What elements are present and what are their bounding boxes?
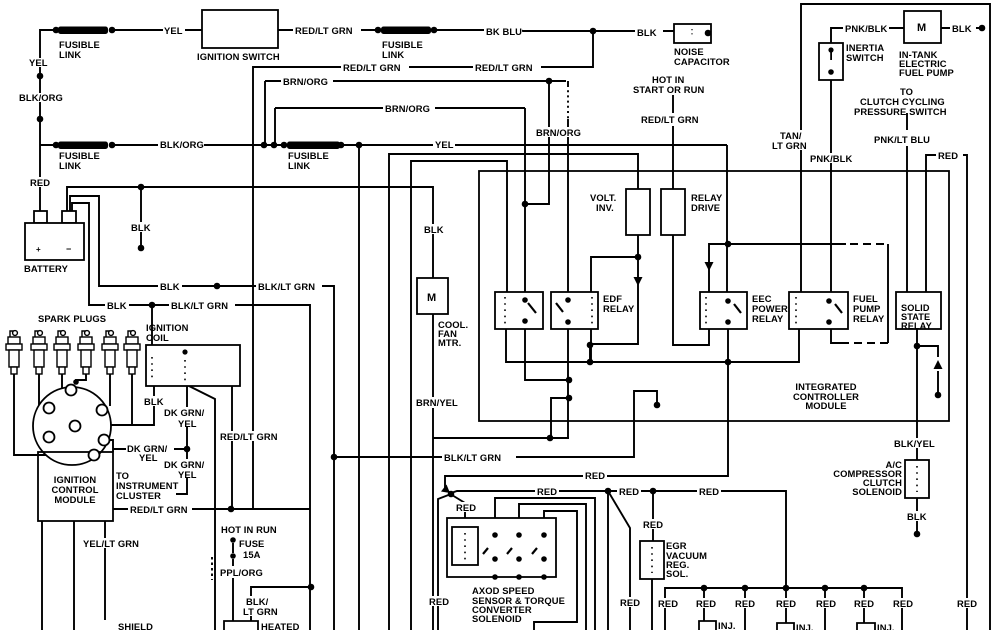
label TAN/LT GRN bbox=[770, 130, 808, 150]
svg-text:YEL: YEL bbox=[178, 469, 197, 480]
fusible link 4 bar bbox=[287, 142, 340, 150]
label YEL/LT GRN bbox=[81, 538, 143, 548]
label RED inj 786 bbox=[774, 598, 798, 608]
wire: loop right side down bbox=[887, 244, 889, 343]
node: VOLT INV output bbox=[635, 254, 642, 261]
label BLK A/C bbox=[905, 511, 929, 521]
label BK BLU bbox=[484, 26, 522, 36]
wire: injector drop 825 bbox=[824, 588, 826, 630]
label RED diag 630 bbox=[618, 597, 642, 607]
wire: BRN/ORG branch down at x275 to YEL row bbox=[274, 108, 276, 145]
ignition switch IGNITION SWITCH bbox=[202, 10, 278, 48]
wire: RED distribution row y491 bbox=[451, 491, 786, 588]
svg-text:LT GRN: LT GRN bbox=[772, 140, 807, 151]
node: EDF relay 2 contacts bbox=[565, 297, 571, 303]
label RED/LT GRN top bbox=[293, 25, 361, 35]
label BLK/LT GRN row457 bbox=[442, 451, 516, 462]
svg-text:RED: RED bbox=[429, 596, 449, 607]
svg-text:RED: RED bbox=[643, 519, 663, 530]
wire: ignition coil BLK bottom pin to distributor center bbox=[80, 386, 154, 425]
svg-text:FUSE: FUSE bbox=[239, 538, 264, 549]
distributor tower lower-left bbox=[44, 432, 55, 443]
svg-text:15A: 15A bbox=[243, 549, 261, 560]
svg-text:RED: RED bbox=[699, 486, 719, 497]
svg-text:M: M bbox=[427, 292, 436, 304]
wire: spark plug 1 lead bbox=[14, 374, 47, 455]
inertia switch bbox=[819, 43, 843, 80]
svg-text:RED: RED bbox=[537, 486, 557, 497]
svg-text:YEL: YEL bbox=[139, 452, 158, 463]
EEC power relay K2 bbox=[700, 292, 747, 329]
distributor tower top bbox=[66, 385, 77, 396]
svg-text:BLK/ORG: BLK/ORG bbox=[19, 92, 63, 103]
label PNK/BLK top bbox=[843, 23, 889, 33]
wire: BRN/ORG branch x549 down to x525 join bbox=[525, 81, 549, 204]
wire: top row from fusible link to ignition switch bbox=[112, 29, 202, 31]
node: solid state relay output bbox=[914, 343, 921, 350]
svg-text:BLK: BLK bbox=[107, 300, 127, 311]
fusible link 1 bar bbox=[58, 27, 108, 35]
svg-text:MODULE: MODULE bbox=[54, 494, 95, 505]
node: BLK row y305 coil junction bbox=[149, 302, 156, 309]
svg-text:BLK: BLK bbox=[144, 396, 164, 407]
label RED/LT GRN coil bbox=[218, 431, 282, 441]
label BRN/ORG dashed bbox=[534, 127, 586, 137]
svg-text:RED/LT GRN: RED/LT GRN bbox=[641, 114, 699, 125]
label BLK fuel pump bbox=[950, 23, 976, 33]
distributor tower upper-right bbox=[97, 405, 108, 416]
label YEL top bbox=[163, 25, 185, 35]
node: YEL marker upper bbox=[37, 73, 44, 80]
node: x569 junctions bbox=[566, 377, 573, 384]
wire: BRN/ORG branch down at x265 to YEL row bbox=[264, 81, 266, 145]
svg-text:RED: RED bbox=[776, 598, 796, 609]
SPARK PLUGS bbox=[6, 331, 140, 374]
svg-text:BATTERY: BATTERY bbox=[24, 263, 69, 274]
dotted column AXOD connector bbox=[464, 533, 466, 560]
battery body bbox=[25, 223, 84, 260]
svg-text:IGNITION SWITCH: IGNITION SWITCH bbox=[197, 51, 280, 62]
ignition control module box bbox=[38, 452, 113, 521]
spark plug 5 bbox=[102, 331, 118, 374]
fusible link 3 bar bbox=[381, 27, 431, 35]
node: BRN/ORG branch x549 bbox=[546, 78, 553, 85]
wire: EDF relay 2 lower pin path bbox=[567, 329, 569, 439]
node: injector bus junctions bbox=[701, 585, 708, 592]
wire: inertia switch feed from top bbox=[831, 28, 904, 43]
wire: EDF relay 1 pin x525 to x569 join bbox=[525, 329, 569, 380]
wire: BLK/LT GRN branch to heated windshield bbox=[251, 587, 311, 621]
svg-text:INJ.: INJ. bbox=[718, 620, 736, 630]
wire: spark plug 2 lead bbox=[39, 374, 44, 408]
svg-text:MODULE: MODULE bbox=[805, 400, 846, 411]
svg-text:BLK/YEL: BLK/YEL bbox=[894, 438, 935, 449]
wire: ignition coil top BLK pin bbox=[151, 305, 153, 345]
label RED/LT GRN module bbox=[128, 504, 192, 514]
wire: fuse PPL/ORG drop to heated windshield bbox=[232, 543, 234, 621]
label PNK/LT BLU bbox=[872, 134, 936, 144]
label RED row491 b bbox=[617, 486, 641, 496]
svg-text:FUEL PUMP: FUEL PUMP bbox=[899, 67, 954, 78]
svg-text:RED/LT GRN: RED/LT GRN bbox=[475, 62, 533, 73]
svg-text:HEATED: HEATED bbox=[261, 621, 300, 630]
wire: EDF relay 1 lower pin to ground bus to fuel pump relay bbox=[506, 329, 799, 362]
svg-text:LINK: LINK bbox=[288, 160, 310, 171]
label RED row491 a bbox=[535, 486, 559, 496]
label RED inj 902 bbox=[891, 598, 915, 608]
svg-text:BLK: BLK bbox=[907, 511, 927, 522]
node: BK BLU junction bbox=[590, 28, 597, 35]
label RED/LT GRN row2 a bbox=[341, 62, 409, 72]
node: inertia switch contacts bbox=[828, 47, 833, 52]
RELAY CONTACT MARKS + DOTTED COLUMNS bbox=[152, 29, 917, 573]
svg-text:RED/LT GRN: RED/LT GRN bbox=[130, 504, 188, 515]
wire: BRN/YEL cooling fan motor to EDF relay bbox=[432, 314, 434, 630]
distributor cap circle bbox=[33, 387, 111, 465]
label YEL row145 bbox=[433, 139, 455, 149]
svg-text:RED: RED bbox=[658, 598, 678, 609]
cooling fan motor M bbox=[417, 278, 448, 314]
svg-text:BRN/ORG: BRN/ORG bbox=[283, 76, 328, 87]
svg-text:DRIVE: DRIVE bbox=[691, 202, 720, 213]
wire: module pin 2 bbox=[73, 521, 75, 630]
wire: battery negative riser 2 BLK row y286 bbox=[70, 196, 334, 630]
svg-text:BRN/ORG: BRN/ORG bbox=[385, 103, 430, 114]
svg-text:LINK: LINK bbox=[59, 160, 81, 171]
svg-text:PRESSURE SWITCH: PRESSURE SWITCH bbox=[854, 106, 947, 117]
EDF relay K1 half 1 bbox=[495, 292, 543, 329]
wire: ignition switch to fusible link 3 bbox=[278, 29, 378, 31]
noise capacitor bbox=[674, 24, 711, 43]
svg-text:INJ.: INJ. bbox=[877, 622, 895, 630]
wire: BRN/ORG x525 drop to EDF relay 1 bbox=[524, 108, 526, 292]
distributor tower upper-left bbox=[44, 403, 55, 414]
svg-text:BLK: BLK bbox=[160, 281, 180, 292]
wire: BRN/ORG upper row bbox=[265, 80, 566, 82]
node: BLK row y286 junction bbox=[214, 283, 221, 290]
arrow up to solid state relay bbox=[934, 360, 943, 369]
spark plug 3 bbox=[54, 331, 70, 374]
svg-text:SWITCH: SWITCH bbox=[846, 52, 884, 63]
label RED battery bbox=[28, 177, 52, 187]
node: DK GRN/YEL junction bbox=[184, 446, 191, 453]
label DK GRN/YEL 3 bbox=[162, 459, 210, 478]
svg-text:BRN/YEL: BRN/YEL bbox=[416, 397, 458, 408]
label BLK coil pin bbox=[142, 396, 166, 406]
wire: x388 long vertical and feed to VOLT INV bbox=[389, 154, 638, 630]
wire: AXOD bracket 1 bbox=[495, 498, 595, 630]
fuel pump relay K3 bbox=[789, 292, 848, 329]
wire: BRN/ORG dashed drop to EDF relay coil bbox=[567, 81, 569, 85]
node: RED row junctions bbox=[605, 488, 612, 495]
dotted column A/C solenoid bbox=[916, 466, 918, 492]
svg-text:RED: RED bbox=[620, 597, 640, 608]
svg-text:BRN/ORG: BRN/ORG bbox=[536, 127, 581, 138]
svg-text:RELAY: RELAY bbox=[603, 303, 635, 314]
integrated controller module box bbox=[479, 171, 949, 421]
wire: injector drop 704 bbox=[703, 588, 705, 621]
svg-text:BLK/LT GRN: BLK/LT GRN bbox=[171, 300, 228, 311]
label RED/LT GRN row2 b bbox=[473, 62, 541, 72]
dotted column EDF2 bbox=[591, 297, 593, 324]
node: fuse terminals bbox=[230, 537, 236, 543]
wire: RED bracket right branch long vertical bbox=[963, 155, 967, 630]
battery terminal + bbox=[34, 211, 47, 223]
svg-text:BK BLU: BK BLU bbox=[486, 26, 522, 37]
svg-text:COIL: COIL bbox=[146, 332, 169, 343]
heated windshield box top bbox=[224, 621, 258, 630]
svg-text:SOLENOID: SOLENOID bbox=[472, 613, 522, 624]
svg-text:BLK/LT GRN: BLK/LT GRN bbox=[444, 452, 501, 463]
svg-text:PPL/ORG: PPL/ORG bbox=[220, 567, 263, 578]
distributor tower bottom bbox=[89, 450, 100, 461]
wire: AXOD bracket 3 bbox=[534, 511, 577, 630]
wire: shield dashes bbox=[211, 557, 213, 580]
node: dangling stub end x657 bbox=[654, 402, 661, 409]
injector INJ3 box bbox=[857, 623, 875, 630]
dotted column EGR bbox=[651, 547, 653, 573]
svg-text:YEL: YEL bbox=[435, 139, 454, 150]
wire: integrated controller module right feed TAN/LT GRN bbox=[801, 4, 990, 630]
node: arrow stub end bbox=[935, 392, 942, 399]
svg-text:YEL/LT GRN: YEL/LT GRN bbox=[83, 538, 139, 549]
injector INJ1 box bbox=[699, 621, 716, 630]
ARROWS bbox=[441, 262, 943, 493]
node: EDF output junctions bbox=[587, 342, 594, 349]
wire: BLK/ORG + YEL main row y145 bbox=[40, 144, 727, 146]
injector INJ2 box bbox=[777, 623, 794, 630]
svg-text:YEL: YEL bbox=[164, 25, 183, 36]
wire: YEL drop to EEC power relay bbox=[726, 145, 728, 292]
contact mark AXOD 1 bbox=[483, 548, 488, 554]
spark plug 6 bbox=[124, 331, 140, 374]
node: RED feed junction bbox=[448, 491, 455, 498]
label BLK/ORG row145 bbox=[158, 139, 204, 149]
node: noise capacitor terminal bbox=[705, 30, 712, 37]
svg-text:RED: RED bbox=[585, 470, 605, 481]
label DK GRN/YEL 2 bbox=[126, 443, 174, 460]
contact mark EDF2 bbox=[556, 303, 563, 312]
svg-text:PNK/BLK: PNK/BLK bbox=[810, 153, 852, 164]
svg-text:BLK/LT GRN: BLK/LT GRN bbox=[258, 281, 315, 292]
label DK GRN/YEL 1 bbox=[162, 407, 210, 427]
label BLK/LT GRN row286 bbox=[256, 281, 322, 291]
svg-text:SHIELD: SHIELD bbox=[118, 621, 153, 630]
wire: DK GRN/YEL distributor link bbox=[113, 448, 187, 450]
EGR vacuum regulator solenoid box bbox=[640, 541, 664, 579]
arrow into EDF relay bbox=[634, 277, 643, 286]
wire: BLK/LT GRN row y457 bbox=[334, 391, 657, 457]
wire: EGR output to bottom bbox=[651, 579, 653, 630]
svg-text:DK GRN/: DK GRN/ bbox=[164, 407, 205, 418]
svg-text:SOL.: SOL. bbox=[666, 568, 688, 579]
svg-text:RELAY: RELAY bbox=[901, 321, 932, 331]
in-tank electric fuel pump M bbox=[904, 11, 941, 43]
svg-text:RELAY: RELAY bbox=[752, 313, 784, 324]
wire: RELAY DRIVE output to EEC power relay bbox=[673, 235, 709, 345]
solid state relay K4 bbox=[896, 292, 941, 329]
wire: RED diagonal branch bbox=[608, 491, 630, 630]
label RED right 967 bbox=[955, 598, 979, 608]
wire: solid state relay arrow branch bbox=[917, 346, 938, 393]
svg-text:RED: RED bbox=[957, 598, 977, 609]
node: distributor top junction bbox=[73, 379, 79, 385]
wire: EEC relay coil loop from YEL node bbox=[709, 244, 728, 292]
svg-text:RED: RED bbox=[735, 598, 755, 609]
wire: T jog x551 bbox=[551, 398, 569, 438]
label RED drop 438 bbox=[427, 596, 451, 606]
dotted column EEC bbox=[705, 297, 707, 324]
wire: RED drop left of AXOD bbox=[438, 494, 451, 630]
node: EEC loop junction y244 bbox=[725, 241, 732, 248]
wire: fuel pump relay loop dashed part bbox=[850, 243, 888, 245]
node: fuel pump relay contacts bbox=[826, 298, 832, 304]
label BLK/LT GRN row305 bbox=[169, 300, 235, 310]
svg-text:PNK/BLK: PNK/BLK bbox=[845, 23, 887, 34]
node: A/C solenoid ground end bbox=[914, 531, 921, 538]
node: EEC relay contacts bbox=[725, 298, 731, 304]
svg-text:RED: RED bbox=[938, 150, 958, 161]
svg-text:BLK/ORG: BLK/ORG bbox=[160, 139, 204, 150]
wire: BLK ground stub at x141 bbox=[140, 187, 142, 246]
svg-text:BLK: BLK bbox=[131, 222, 151, 233]
label BLK noise bbox=[635, 27, 663, 37]
label RED row491 c bbox=[697, 486, 721, 496]
wire: A/C solenoid BLK ground bbox=[916, 498, 918, 532]
spark plug 4 bbox=[78, 331, 94, 374]
label YEL left bbox=[28, 58, 49, 67]
label RED inj 745 bbox=[733, 598, 757, 608]
contact mark AXOD 2 bbox=[507, 548, 512, 554]
svg-text:RED/LT GRN: RED/LT GRN bbox=[343, 62, 401, 73]
svg-text:BLK: BLK bbox=[424, 224, 444, 235]
node: battery feed junction x141 bbox=[138, 184, 145, 191]
EDF relay K1 half 2 bbox=[551, 292, 598, 329]
svg-text:LINK: LINK bbox=[59, 49, 81, 60]
spark plug 2 bbox=[31, 331, 47, 374]
wire: injector drop 745 bbox=[744, 588, 746, 630]
label RED top row bbox=[583, 470, 607, 480]
svg-text:RED: RED bbox=[619, 486, 639, 497]
label BRN/ORG row 108 bbox=[383, 103, 435, 113]
svg-text:CAPACITOR: CAPACITOR bbox=[674, 56, 730, 67]
node: ignition coil terminal bbox=[182, 349, 187, 354]
svg-text:MTR.: MTR. bbox=[438, 337, 461, 348]
spark plug 1 bbox=[6, 331, 22, 374]
battery terminal - bbox=[62, 211, 76, 223]
arrow into RED junction bbox=[441, 485, 450, 494]
wire: spark plug 4 lead bbox=[76, 374, 86, 383]
label RED EGR bbox=[641, 519, 665, 529]
wire: spark plug 5 lead bbox=[109, 374, 111, 406]
contact mark EEC bbox=[734, 304, 741, 313]
svg-text:RED: RED bbox=[854, 598, 874, 609]
wire: fuel pump M to BLK terminal bbox=[941, 27, 979, 29]
wire: fuel pump relay loop solid part bbox=[728, 243, 846, 245]
label BLK/YEL bbox=[892, 438, 936, 448]
fusible link 2 bar bbox=[58, 142, 108, 150]
node: fusible link 2 ends bbox=[53, 142, 60, 149]
label RED/LT GRN relay drive bbox=[639, 114, 707, 124]
svg-text:RED: RED bbox=[816, 598, 836, 609]
svg-text:M: M bbox=[917, 22, 926, 34]
node: AXOD connector pins bbox=[492, 532, 498, 538]
label BRN/ORG row 81 bbox=[281, 76, 333, 86]
svg-text:RED: RED bbox=[30, 177, 50, 188]
volt inv box U1 bbox=[626, 189, 650, 235]
node: YEL row junctions bbox=[261, 142, 268, 149]
node: bus junction x728 bbox=[725, 359, 732, 366]
wire: coil diagonal pin to x215 vertical bbox=[189, 386, 215, 630]
svg-text:START OR RUN: START OR RUN bbox=[633, 84, 704, 95]
wire: RED/LT GRN from ignition control module bbox=[113, 508, 310, 510]
label PPL/ORG bbox=[218, 567, 266, 577]
arrow into EEC relay bbox=[705, 262, 714, 271]
wire: VOLT INV arrow branch to EDF node bbox=[590, 257, 638, 362]
wire: EDF relay 2 pin x591 to bus bbox=[590, 329, 592, 362]
label RED inj 665 bbox=[656, 598, 680, 608]
wire: RED bracket left branch to solid state relay bbox=[926, 155, 936, 292]
dotted column ignition coil 2 bbox=[184, 360, 186, 381]
wire: distributor LR tower to module bbox=[108, 440, 113, 452]
contact mark EDF1 bbox=[528, 303, 536, 313]
node: fuel pump BLK end bbox=[979, 25, 986, 32]
wire: module pin YEL/LT GRN bbox=[41, 521, 43, 630]
node: BLK/ORG marker lower bbox=[37, 116, 44, 123]
node: fusible link 3 ends bbox=[375, 27, 382, 34]
svg-text:RED/LT GRN: RED/LT GRN bbox=[295, 25, 353, 36]
wire: battery negative riser 1 to cooling fan motor row bbox=[67, 187, 433, 278]
svg-text:−: − bbox=[66, 244, 71, 254]
svg-text:BLK: BLK bbox=[637, 27, 657, 38]
ignition coil box bbox=[146, 345, 240, 386]
wire: BRN/ORG lower row bbox=[275, 107, 525, 109]
label RED inj 864 bbox=[852, 598, 876, 608]
wire: clutch cycling pressure switch PNK/LT BLU bbox=[906, 113, 908, 292]
svg-text:RED/LT GRN: RED/LT GRN bbox=[220, 431, 278, 442]
node: BRN/ORG join x525 y204 bbox=[522, 201, 529, 208]
wire: EGR feed drop bbox=[652, 491, 654, 541]
node: fusible link 1 ends bbox=[53, 27, 60, 34]
label BLK row286 bbox=[158, 281, 182, 291]
wire: injector drop 786 bbox=[785, 588, 787, 623]
svg-text:BLK: BLK bbox=[952, 23, 972, 34]
label RED inj 825 bbox=[814, 598, 838, 608]
wire: loop bottom to fuel pump relay pin bbox=[831, 329, 846, 343]
svg-text:RED: RED bbox=[696, 598, 716, 609]
svg-text:INJ.: INJ. bbox=[796, 622, 814, 630]
wire: x411 long vertical bridging to EDF relay 1 pin bbox=[411, 161, 507, 630]
A/C compressor clutch solenoid box bbox=[905, 460, 929, 498]
AXOD speed sensor and torque converter solenoid box bbox=[447, 518, 556, 577]
wire: AXOD pin 1 riser bbox=[452, 495, 465, 518]
AXOD inner connector box bbox=[452, 527, 478, 565]
distributor tower center bbox=[70, 421, 81, 432]
label BLK/ORG left bbox=[18, 93, 64, 102]
label PNK/BLK lower bbox=[808, 153, 854, 163]
contact mark fuel pump relay bbox=[835, 304, 842, 313]
svg-text:LT GRN: LT GRN bbox=[243, 606, 278, 617]
svg-text:CLUSTER: CLUSTER bbox=[116, 490, 161, 501]
svg-text:HOT IN RUN: HOT IN RUN bbox=[221, 524, 277, 535]
wire: battery RED feed left vertical bbox=[40, 30, 53, 211]
wire: coil DK GRN/YEL pin down to instrument cluster stub bbox=[176, 386, 187, 494]
wire: solid state relay output to A/C solenoid bbox=[916, 329, 918, 460]
contact mark AXOD 3 bbox=[532, 548, 537, 554]
wire: injector bus bbox=[665, 588, 902, 630]
wire: EEC power relay main output down and RED feed row bbox=[445, 329, 728, 494]
wire: BRN/YEL horizontal branch y438 bbox=[433, 437, 569, 439]
